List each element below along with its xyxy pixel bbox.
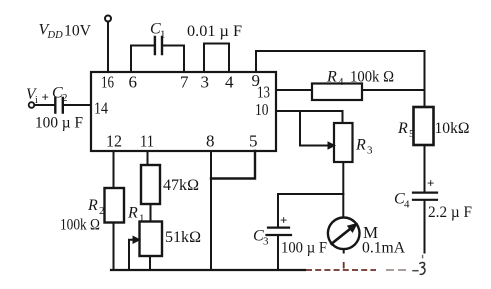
- wire Vi to C2: [34, 104, 55, 106]
- svg-text:DD: DD: [47, 30, 64, 41]
- ground rail dashed artifacts: [306, 262, 376, 270]
- svg-text:+: +: [42, 90, 49, 105]
- svg-text:4: 4: [404, 199, 410, 211]
- svg-text:100 µ F: 100 µ F: [35, 115, 83, 132]
- svg-text:+: +: [280, 213, 287, 228]
- wire pin 10 branch to R3 wiper: [300, 111, 328, 146]
- svg-text:3: 3: [263, 236, 269, 248]
- Vdd supply terminal: [105, 16, 111, 22]
- capacitor C1 (pins 6-7 loop): [131, 46, 184, 73]
- svg-text:4: 4: [338, 76, 344, 88]
- wire R5 to C4: [424, 145, 426, 192]
- wire pin 8 to ground rail: [210, 151, 212, 270]
- wire pin 9 to right branch: [256, 51, 425, 72]
- meter M: [328, 218, 360, 250]
- wire pin 13 to R4: [276, 89, 312, 91]
- wire R3 to meter: [342, 162, 344, 217]
- svg-text:100 µ F: 100 µ F: [281, 240, 327, 257]
- svg-text:51kΩ: 51kΩ: [165, 229, 201, 246]
- svg-text:R: R: [326, 69, 337, 86]
- svg-text:1: 1: [139, 213, 145, 225]
- svg-text:0.1mA: 0.1mA: [362, 240, 406, 257]
- capacitor 0.01uF (pins 3-4 loop): [204, 44, 229, 73]
- wire pin 5 to pin 8: [211, 151, 255, 179]
- svg-text:4: 4: [225, 73, 234, 92]
- wire pin 12 to R2: [113, 151, 115, 188]
- svg-text:100k Ω: 100k Ω: [60, 217, 100, 234]
- svg-text:8: 8: [206, 132, 215, 151]
- svg-text:i: i: [35, 95, 38, 106]
- svg-text:R: R: [87, 197, 98, 214]
- wire pin 10 to R3 top: [276, 111, 343, 123]
- svg-text:13: 13: [257, 83, 270, 102]
- svg-text:R: R: [355, 137, 366, 154]
- svg-text:12: 12: [106, 132, 122, 151]
- svg-text:11: 11: [140, 132, 154, 151]
- svg-text:R: R: [397, 120, 408, 137]
- svg-text:2: 2: [62, 92, 68, 104]
- svg-text:+: +: [427, 176, 434, 191]
- wire R4 to right branch: [362, 89, 425, 91]
- svg-text:10: 10: [255, 100, 269, 119]
- wire pin 11 to 47k: [147, 151, 149, 165]
- wire Vdd to pin 16: [107, 22, 109, 73]
- svg-text:100k Ω: 100k Ω: [350, 69, 394, 86]
- svg-text:5: 5: [249, 132, 258, 151]
- wire C3 to ground rail: [277, 236, 279, 270]
- svg-text:3: 3: [201, 73, 210, 92]
- svg-text:7: 7: [180, 73, 189, 92]
- potentiometer R3: [334, 123, 353, 162]
- svg-text:2.2 µ F: 2.2 µ F: [428, 204, 472, 221]
- wire R1 pot bottom to ground rail: [149, 256, 151, 270]
- resistor R5: [414, 107, 434, 145]
- input terminal Vi: [29, 102, 35, 108]
- svg-text:0.01 µ F: 0.01 µ F: [187, 23, 242, 40]
- capacitor C2: [55, 98, 63, 113]
- svg-text:14: 14: [94, 99, 108, 118]
- svg-text:10V: 10V: [64, 23, 92, 40]
- svg-text:47kΩ: 47kΩ: [163, 177, 199, 194]
- ground rail: [111, 269, 305, 271]
- svg-text:3: 3: [367, 145, 373, 157]
- ground hook artifact: [412, 255, 425, 275]
- svg-text:2: 2: [99, 205, 105, 217]
- svg-text:16: 16: [101, 73, 114, 92]
- resistor R4: [312, 84, 362, 101]
- wire C3 junction: [278, 193, 343, 195]
- svg-text:R: R: [127, 205, 138, 222]
- svg-text:5: 5: [409, 128, 415, 140]
- capacitor C3: [277, 194, 279, 227]
- op-amp U1 (16-pin IC body): [91, 72, 276, 151]
- wire right vertical branch: [424, 51, 426, 107]
- resistor 47k: [141, 165, 160, 204]
- wire C4 to bottom: [424, 201, 426, 253]
- potentiometer R1 (51k): [140, 222, 163, 257]
- svg-text:1: 1: [160, 29, 166, 41]
- wire C2 to pin 14: [63, 104, 91, 106]
- resistor R2: [105, 188, 125, 223]
- svg-text:6: 6: [129, 73, 138, 92]
- wire R1 wiper to ground rail: [129, 240, 133, 270]
- capacitor C4: [413, 193, 437, 200]
- wire meter bottom stub: [343, 249, 345, 252]
- wire 47k to R1 pot: [150, 204, 152, 222]
- svg-text:10kΩ: 10kΩ: [435, 120, 470, 137]
- wire R2 to ground rail: [113, 223, 115, 271]
